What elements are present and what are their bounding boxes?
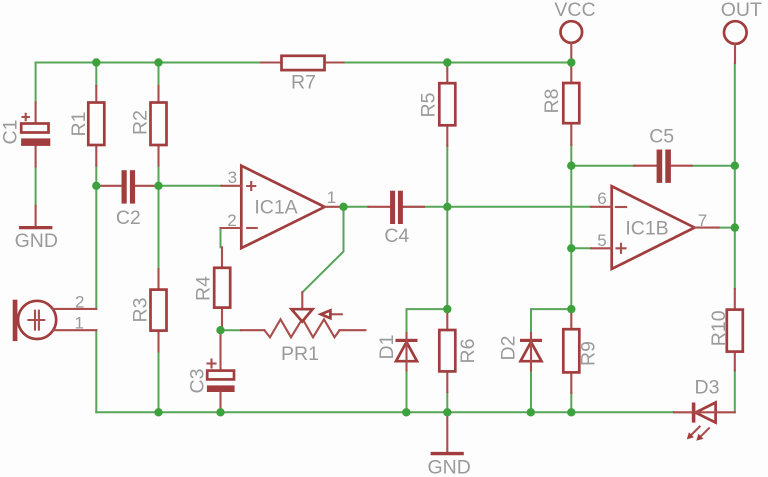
LED D3 arrow 1 xyxy=(691,427,699,435)
wire top rail right xyxy=(344,62,572,64)
capacitor C5 leads xyxy=(634,165,692,167)
diode D1 lead xyxy=(405,333,407,370)
wire junction down to D1/R6 xyxy=(446,207,448,309)
op-amp IC1B pin6 lead xyxy=(591,206,612,208)
LED D3 cathode bar xyxy=(692,403,696,423)
svg-text:R10: R10 xyxy=(708,310,730,346)
capacitor C5 plates xyxy=(657,150,663,183)
wire R3 bottom xyxy=(158,352,160,413)
wire D1 bottom xyxy=(406,371,408,413)
potentiometer PR1 arrow xyxy=(330,313,341,315)
capacitor C1 plus sign xyxy=(23,114,29,120)
op-amp IC1B plus sign xyxy=(617,244,626,253)
wire R1 top xyxy=(95,63,97,87)
wire bottom rail xyxy=(96,411,674,413)
resistor R8 leads xyxy=(570,63,572,146)
capacitor C3 lead top xyxy=(219,330,221,370)
wire mic pin1 down xyxy=(95,330,97,412)
wire elbow to D1 xyxy=(407,309,448,333)
capacitor C4 plates xyxy=(390,191,395,224)
svg-text:GND: GND xyxy=(428,457,471,477)
svg-text:R1: R1 xyxy=(68,112,90,137)
capacitor C1 top plate xyxy=(21,124,48,133)
svg-text:C1: C1 xyxy=(0,120,21,145)
wire IC1A out to C4 xyxy=(344,206,369,208)
wire C5 left lead xyxy=(571,165,635,167)
svg-text:C5: C5 xyxy=(649,126,674,148)
capacitor C2 plates xyxy=(122,170,127,203)
wire R2 bottom xyxy=(158,166,160,186)
microphone MIC body bar xyxy=(13,300,18,341)
wire 571 vertical to pin5 and elbow xyxy=(570,166,572,309)
svg-text:D2: D2 xyxy=(498,336,520,361)
op-amp IC1B pin7 lead xyxy=(695,227,719,229)
capacitor C2 leads xyxy=(96,185,158,187)
VCC terminal circle xyxy=(561,21,583,43)
svg-text:D1: D1 xyxy=(376,335,398,360)
svg-text:C4: C4 xyxy=(384,225,409,247)
LED D3 triangle xyxy=(696,403,716,423)
capacitor C1 leads xyxy=(35,103,37,167)
svg-text:C2: C2 xyxy=(116,207,141,229)
resistor R5 xyxy=(439,83,455,125)
resistor R8 xyxy=(563,83,579,123)
capacitor C4 leads xyxy=(369,206,425,208)
svg-text:R7: R7 xyxy=(291,72,316,94)
resistor R10 xyxy=(727,310,743,352)
diode D1 cathode bar xyxy=(396,339,418,342)
microphone MIC pin1 lead xyxy=(53,329,96,331)
resistor R6 xyxy=(439,330,455,371)
wire C5 right to OUT line xyxy=(692,165,735,167)
svg-text:R3: R3 xyxy=(130,298,152,323)
svg-text:2: 2 xyxy=(75,292,84,311)
LED D3 lead xyxy=(674,411,735,413)
ground symbol left xyxy=(35,206,37,227)
svg-text:6: 6 xyxy=(597,189,606,208)
capacitor C1 bottom plate xyxy=(21,138,50,146)
svg-text:C3: C3 xyxy=(187,369,209,394)
resistor R9 leads xyxy=(570,309,572,393)
resistor R3 xyxy=(151,290,167,331)
resistor R10 leads xyxy=(734,289,736,371)
svg-text:IC1B: IC1B xyxy=(625,218,668,240)
resistor R7 leads xyxy=(261,61,344,63)
OUT terminal circle xyxy=(724,21,747,44)
wire R8 bottom to C5 row xyxy=(570,145,572,166)
svg-text:7: 7 xyxy=(698,211,707,230)
svg-text:D3: D3 xyxy=(695,376,720,398)
svg-text:R2: R2 xyxy=(130,110,152,135)
wire R1 bottom xyxy=(95,166,97,186)
wire R10 bottom to D3 corner xyxy=(734,371,736,413)
svg-text:GND: GND xyxy=(15,230,58,252)
potentiometer PR1 leads xyxy=(241,329,365,331)
svg-text:R4: R4 xyxy=(193,276,215,301)
wire R4 to PR1 junction xyxy=(221,329,242,331)
wire C2 row to IC1A pin3 xyxy=(159,185,222,187)
wire top rail left xyxy=(36,62,261,64)
potentiometer PR1 zigzag xyxy=(264,319,339,338)
ground symbol middle xyxy=(446,412,448,452)
wire R6 bottom xyxy=(446,392,448,412)
wire R2 top xyxy=(158,63,160,87)
wire IC1A pin2 to R4 xyxy=(220,228,222,247)
wire PR1 wiper diagonal to IC1A output xyxy=(302,207,343,292)
wire pin5 xyxy=(571,247,591,249)
wire IC1B out to OUT line xyxy=(719,227,735,229)
capacitor C3 bottom plate xyxy=(207,385,235,392)
svg-text:1: 1 xyxy=(327,188,336,207)
wire R3 top xyxy=(158,186,160,269)
resistor R1 xyxy=(88,103,104,146)
svg-text:IC1A: IC1A xyxy=(254,197,297,219)
op-amp IC1A pin1 lead xyxy=(325,206,344,208)
diode D1 triangle xyxy=(396,342,417,361)
capacitor C3 plus sign xyxy=(208,360,216,368)
resistor R2 xyxy=(151,103,167,146)
op-amp IC1B pin5 lead xyxy=(591,247,612,249)
wire mic pin2 vertical xyxy=(95,186,97,309)
resistor R6 leads xyxy=(446,309,448,392)
svg-text:5: 5 xyxy=(597,231,606,250)
resistor R3 leads xyxy=(157,269,159,352)
op-amp IC1A minus sign xyxy=(247,227,257,229)
VCC lead xyxy=(570,44,572,63)
svg-text:R6: R6 xyxy=(457,339,479,364)
wire R9 bottom xyxy=(570,393,572,412)
LED D3 arrow 2 xyxy=(701,428,709,436)
OUT lead xyxy=(734,45,736,64)
op-amp IC1A xyxy=(241,166,324,248)
diode D2 triangle xyxy=(521,342,542,361)
microphone MIC pin2 lead xyxy=(53,308,96,310)
capacitor C3 lead bottom xyxy=(219,392,221,412)
resistor R4 leads xyxy=(221,247,223,330)
resistor R9 xyxy=(563,329,579,372)
potentiometer PR1 wiper triangle xyxy=(292,309,313,321)
potentiometer PR1 wiper lead xyxy=(301,292,303,309)
resistor R7 xyxy=(282,56,325,70)
resistor R4 xyxy=(214,268,230,308)
svg-text:R9: R9 xyxy=(578,341,600,366)
svg-text:2: 2 xyxy=(227,211,236,230)
resistor R2 leads xyxy=(157,86,159,166)
wire R5 bottom xyxy=(446,146,448,207)
wire C4 to junction xyxy=(404,206,448,208)
svg-text:PR1: PR1 xyxy=(281,343,319,365)
op-amp IC1B xyxy=(612,186,695,269)
diode D2 cathode bar xyxy=(520,339,542,342)
microphone MIC capacitor symbol xyxy=(28,311,44,330)
capacitor C3 top plate xyxy=(207,371,234,380)
svg-text:1: 1 xyxy=(74,314,83,333)
resistor R5 leads xyxy=(446,63,448,146)
op-amp IC1A plus sign xyxy=(247,182,255,190)
svg-text:OUT: OUT xyxy=(721,0,762,21)
wire C1 bottom to GND xyxy=(35,166,37,205)
op-amp IC1A pin3 lead xyxy=(222,185,242,187)
svg-text:VCC: VCC xyxy=(554,0,595,21)
wire C1 top xyxy=(35,63,37,103)
wire junction to IC1B pin6 xyxy=(447,206,591,208)
node junction dots xyxy=(92,58,100,66)
wire OUT vertical xyxy=(734,63,736,289)
wire D2 bottom xyxy=(530,371,532,413)
op-amp IC1A pin2 lead xyxy=(221,227,242,229)
op-amp IC1B minus sign xyxy=(616,206,626,208)
svg-text:3: 3 xyxy=(228,168,237,187)
resistor R1 leads xyxy=(95,86,97,166)
svg-text:R8: R8 xyxy=(541,89,563,114)
diode D2 lead xyxy=(530,333,532,370)
svg-text:R5: R5 xyxy=(418,92,440,117)
wire elbow to D2 xyxy=(531,309,571,333)
microphone MIC circle xyxy=(18,301,56,339)
